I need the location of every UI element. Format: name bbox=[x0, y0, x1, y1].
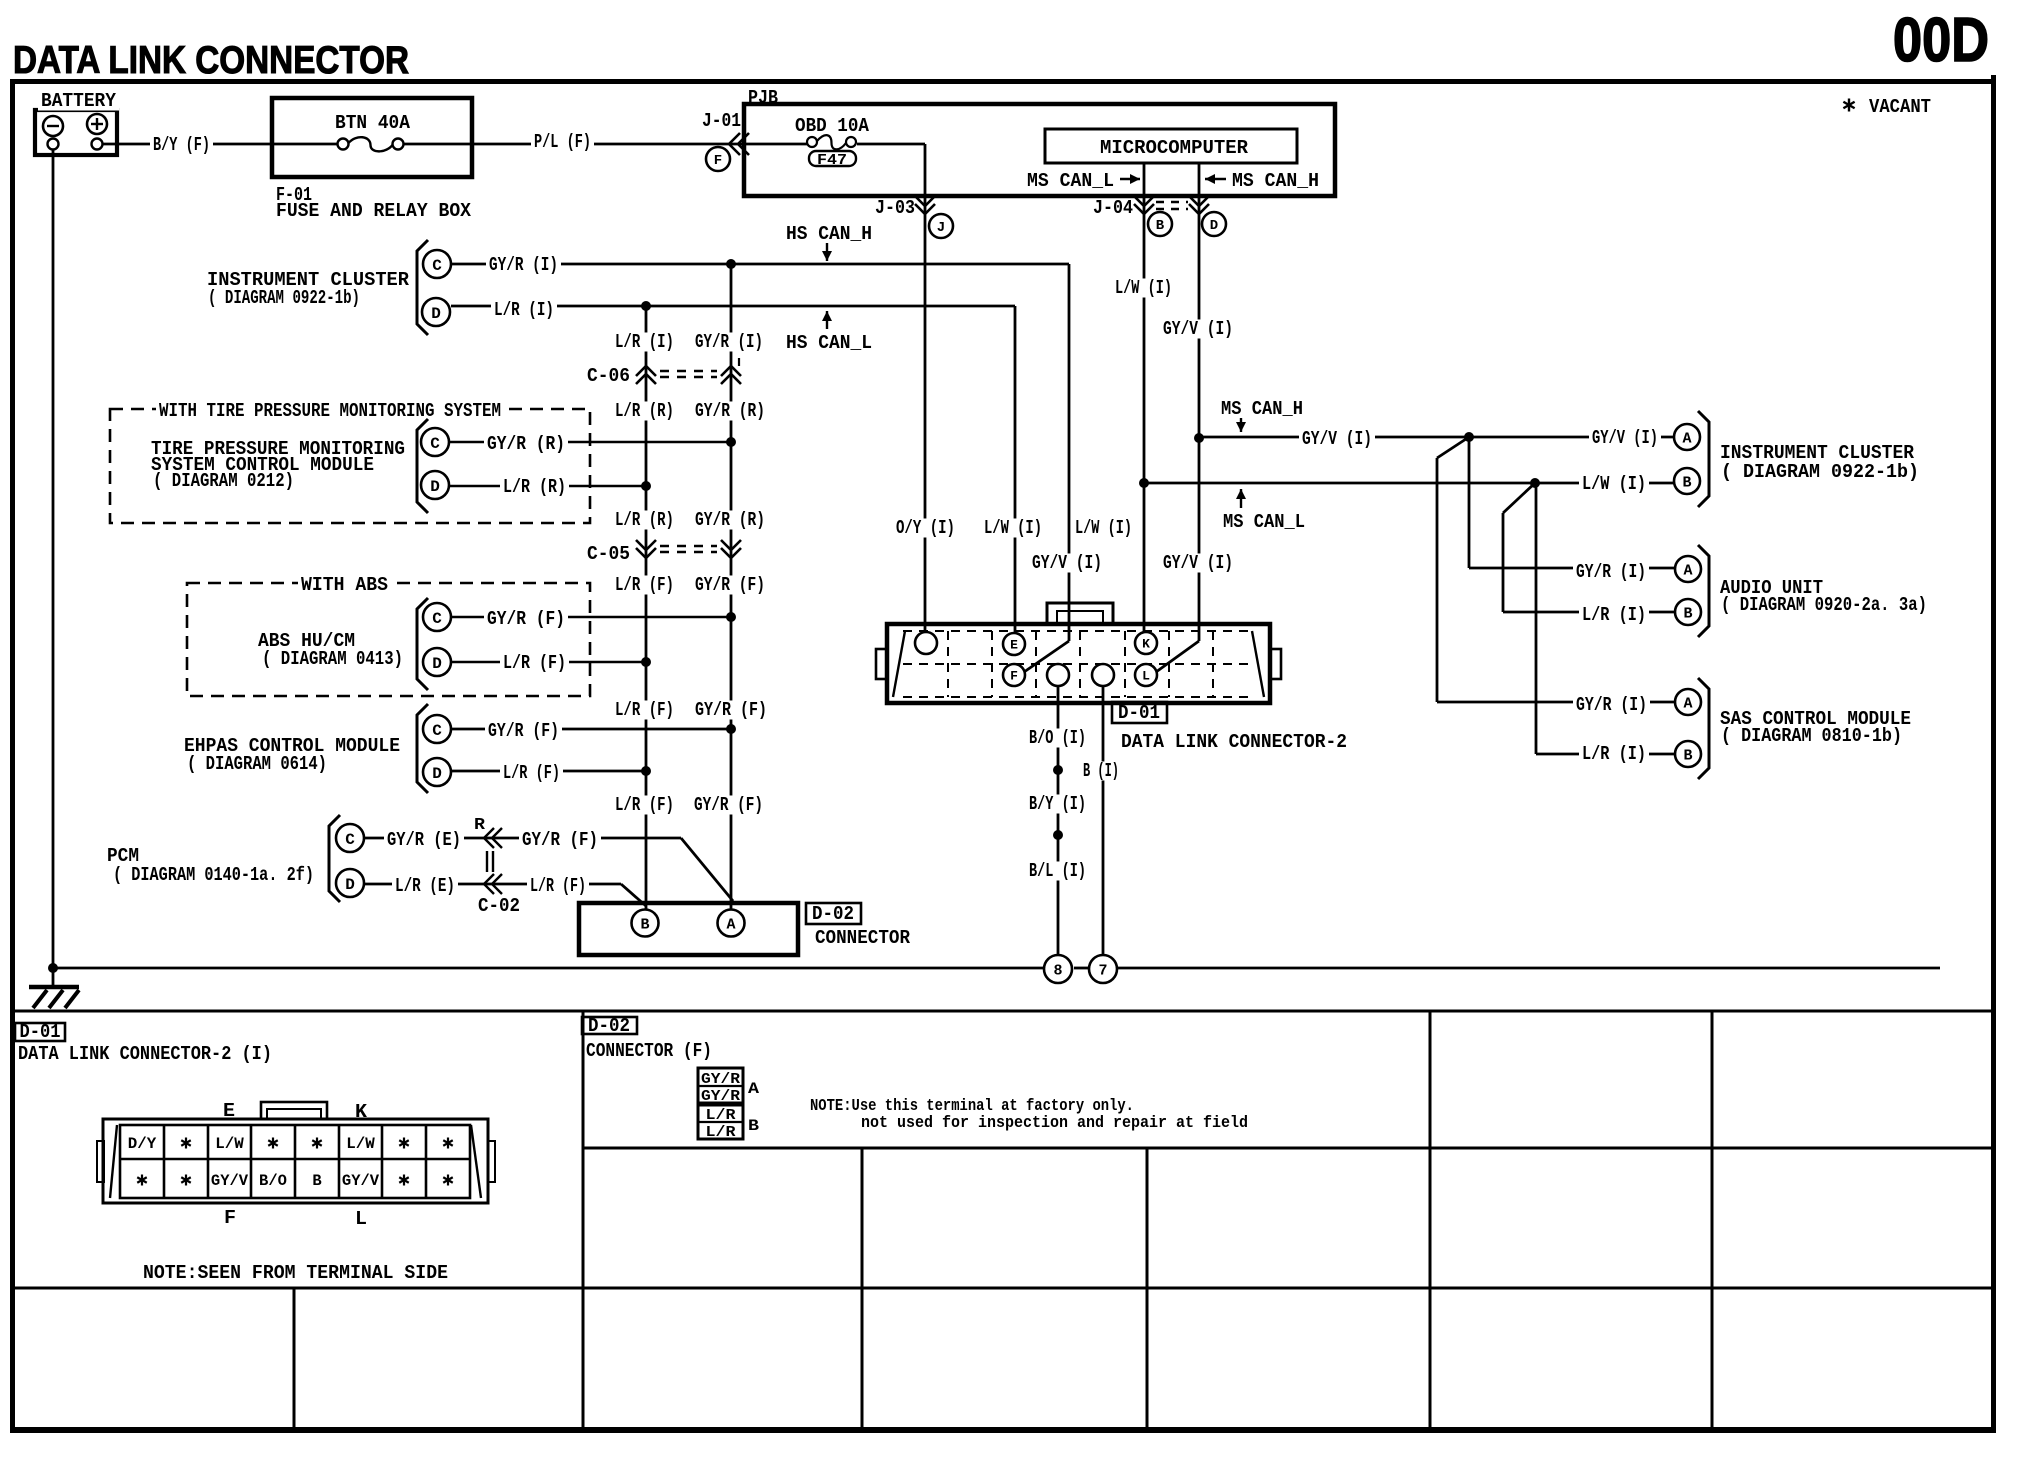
svg-text:B (I): B (I) bbox=[1083, 760, 1119, 782]
label B/Y (F) bbox=[150, 135, 213, 154]
svg-text:L/R (F): L/R (F) bbox=[615, 794, 674, 816]
svg-text:D: D bbox=[430, 478, 440, 496]
svg-text:O/Y (I): O/Y (I) bbox=[896, 517, 955, 539]
label L/W (I) upper bbox=[1112, 278, 1175, 297]
wire: EHPAS C GY/R (F) bbox=[452, 728, 731, 731]
PJB box bbox=[744, 104, 1335, 196]
svg-text:GY/V (I): GY/V (I) bbox=[1163, 318, 1233, 340]
svg-text:L/W (I): L/W (I) bbox=[1115, 277, 1172, 299]
svg-text:CONNECTOR (F): CONNECTOR (F) bbox=[586, 1040, 712, 1062]
svg-text:L/W: L/W bbox=[215, 1135, 244, 1153]
border frame bbox=[10, 79, 1996, 84]
svg-text:L/R (I): L/R (I) bbox=[494, 299, 554, 321]
pin D circle bbox=[1202, 212, 1226, 236]
fuse OBD 10A bbox=[792, 116, 872, 135]
vacant note bbox=[1848, 99, 1850, 112]
svg-text:OBD 10A: OBD 10A bbox=[795, 115, 870, 137]
D-02 wire color table A bbox=[698, 1068, 743, 1103]
svg-text:CONNECTOR: CONNECTOR bbox=[815, 927, 911, 949]
svg-text:DATA LINK CONNECTOR-2 (I): DATA LINK CONNECTOR-2 (I) bbox=[18, 1043, 272, 1065]
svg-text:P/L (F): P/L (F) bbox=[534, 131, 591, 153]
svg-text:F: F bbox=[224, 1207, 236, 1229]
svg-text:GY/V: GY/V bbox=[342, 1172, 380, 1190]
svg-text:C: C bbox=[432, 722, 442, 740]
label P/L (F) bbox=[531, 132, 594, 151]
svg-text:L/R: L/R bbox=[706, 1124, 736, 1141]
svg-text:( DIAGRAM 0922-1b): ( DIAGRAM 0922-1b) bbox=[1721, 461, 1919, 483]
D-01 tag bbox=[1112, 702, 1167, 723]
svg-text:GY/R (F): GY/R (F) bbox=[487, 608, 565, 630]
svg-text:DATA LINK CONNECTOR: DATA LINK CONNECTOR bbox=[13, 39, 409, 82]
labels L/R (R), GY/R (R) bbox=[612, 401, 677, 420]
wire: MS CAN_L L/W (I) to instrument cluster bbox=[1144, 482, 1675, 485]
svg-text:L/W (I): L/W (I) bbox=[1582, 473, 1646, 495]
label L/W (I) mid bbox=[981, 518, 1045, 537]
label L/R (F) bbox=[527, 876, 589, 895]
svg-text:( DIAGRAM 0212): ( DIAGRAM 0212) bbox=[153, 470, 294, 492]
svg-text:PJB: PJB bbox=[748, 87, 778, 109]
svg-text:GY/R (E): GY/R (E) bbox=[387, 829, 461, 851]
ground junction bbox=[48, 963, 58, 973]
svg-text:L/R: L/R bbox=[706, 1107, 736, 1124]
svg-text:( DIAGRAM 0810-1b): ( DIAGRAM 0810-1b) bbox=[1721, 725, 1902, 747]
label GY/R (F) bbox=[484, 609, 568, 628]
svg-text:D: D bbox=[1210, 218, 1218, 234]
svg-text:WITH TIRE PRESSURE MONITORING: WITH TIRE PRESSURE MONITORING SYSTEM bbox=[159, 400, 501, 422]
svg-text:GY/V (I): GY/V (I) bbox=[1032, 552, 1102, 574]
svg-text:K: K bbox=[1142, 637, 1150, 652]
labels B/O, B, B/Y, B/L bbox=[1026, 728, 1089, 747]
svg-text:L/R (F): L/R (F) bbox=[503, 762, 560, 784]
svg-text:B: B bbox=[1156, 218, 1165, 234]
svg-text:J-03: J-03 bbox=[875, 197, 915, 219]
svg-text:7: 7 bbox=[1098, 962, 1107, 979]
svg-text:GY/R (R): GY/R (R) bbox=[695, 509, 765, 531]
label L/R (I) bbox=[491, 300, 557, 319]
label L/R (F) bbox=[500, 653, 569, 672]
TPMS bracket and pins bbox=[417, 419, 428, 513]
svg-text:D: D bbox=[345, 876, 355, 894]
fuse and relay box F-01 bbox=[272, 98, 472, 177]
wire: MS CAN_H GY/V (I) to instrument cluster bbox=[1199, 436, 1675, 439]
svg-text:L: L bbox=[355, 1208, 367, 1230]
wire: branch to audio A bbox=[1468, 437, 1471, 568]
label L/W (I) col4 bbox=[1072, 518, 1135, 537]
label GY/V (I) right2 bbox=[1589, 428, 1661, 447]
wire: B/O - B/Y - B/L drop to ground circle 8 bbox=[1057, 686, 1060, 955]
pin J circle bbox=[929, 214, 953, 238]
svg-text:D: D bbox=[432, 655, 442, 673]
svg-text:A: A bbox=[1683, 562, 1692, 579]
wire: OBD down to J-03 / O/Y (I) down to DLC-2 pin bbox=[924, 144, 927, 632]
svg-text:L/R (R): L/R (R) bbox=[503, 476, 566, 498]
svg-text:L/R (F): L/R (F) bbox=[503, 652, 566, 674]
D-01 pinout cells row2 bbox=[141, 1175, 143, 1186]
svg-text:HS CAN_L: HS CAN_L bbox=[786, 332, 872, 354]
svg-text:L/R (I): L/R (I) bbox=[615, 331, 674, 353]
svg-text:L/W (I): L/W (I) bbox=[984, 517, 1042, 539]
label GY/R (F) bbox=[519, 830, 601, 849]
labels L/R (F), GY/R (F) above PCM bbox=[612, 795, 677, 814]
svg-text:BATTERY: BATTERY bbox=[41, 90, 117, 112]
labels L/R (R), GY/R (R) below TPMS bbox=[612, 510, 677, 529]
wire: fuse to PJB bbox=[404, 143, 744, 146]
label GY/R (R) bbox=[484, 434, 568, 453]
F47 label bbox=[809, 151, 856, 166]
svg-text:C: C bbox=[432, 610, 442, 628]
svg-text:L/R (R): L/R (R) bbox=[615, 509, 674, 531]
svg-text:C-05: C-05 bbox=[587, 543, 630, 565]
ground bus bbox=[53, 967, 1044, 970]
svg-text:8: 8 bbox=[1053, 962, 1062, 979]
fuse BTN 40A bbox=[338, 139, 349, 150]
wire: branch to SAS A bbox=[1437, 437, 1469, 458]
D-02 tag bbox=[806, 903, 861, 924]
SAS control module bbox=[1573, 695, 1650, 714]
svg-text:A: A bbox=[726, 916, 735, 933]
TPMS dashed box bbox=[110, 409, 590, 523]
instrument cluster (left) bbox=[417, 240, 428, 335]
svg-text:L/R (R): L/R (R) bbox=[615, 400, 674, 422]
connector C-06 bbox=[584, 366, 633, 385]
svg-text:B/L (I): B/L (I) bbox=[1029, 860, 1086, 882]
label L/R (F) bbox=[500, 763, 563, 782]
wire: L/R column bbox=[645, 306, 648, 909]
wire: microcomputer MS CAN_H drop bbox=[1198, 163, 1201, 641]
svg-text:B/O (I): B/O (I) bbox=[1029, 727, 1086, 749]
svg-text:( DIAGRAM 0920-2a. 3a): ( DIAGRAM 0920-2a. 3a) bbox=[1721, 594, 1927, 616]
svg-text:MICROCOMPUTER: MICROCOMPUTER bbox=[1100, 137, 1249, 159]
label GY/R (F) bbox=[485, 721, 562, 740]
label GY/R (I) bbox=[486, 255, 561, 274]
instrument cluster (right) bbox=[1674, 424, 1700, 450]
svg-text:D-02: D-02 bbox=[588, 1015, 630, 1037]
svg-text:NOTE:SEEN FROM TERMINAL SIDE: NOTE:SEEN FROM TERMINAL SIDE bbox=[143, 1262, 448, 1284]
wire: PCM D L/R row bbox=[364, 883, 621, 886]
svg-text:GY/R: GY/R bbox=[701, 1071, 740, 1088]
svg-text:D: D bbox=[432, 765, 442, 783]
svg-text:B: B bbox=[312, 1172, 322, 1190]
wire: GY/V diagonal to pin L bbox=[1156, 641, 1199, 672]
wire: ABS D L/R (F) bbox=[451, 661, 646, 663]
wire: GY/R column bbox=[730, 264, 733, 909]
svg-text:C-06: C-06 bbox=[587, 365, 630, 387]
label GY/V (I) right1 bbox=[1299, 429, 1375, 448]
svg-text:J: J bbox=[937, 220, 945, 236]
svg-text:F: F bbox=[1010, 669, 1018, 684]
svg-text:B: B bbox=[1683, 747, 1692, 764]
label L/R (E) bbox=[392, 876, 458, 895]
D-02 detail tag bbox=[582, 1017, 637, 1034]
svg-text:R: R bbox=[474, 816, 486, 835]
svg-text:GY/R (F): GY/R (F) bbox=[522, 829, 598, 851]
svg-text:BTN 40A: BTN 40A bbox=[335, 112, 411, 134]
svg-text:00D: 00D bbox=[1893, 6, 1989, 75]
svg-text:B: B bbox=[1683, 605, 1692, 622]
svg-text:WITH ABS: WITH ABS bbox=[301, 574, 388, 596]
wire: battery negative down to ground bus bbox=[52, 150, 55, 986]
svg-text:HS CAN_H: HS CAN_H bbox=[786, 223, 872, 245]
svg-text:B: B bbox=[1682, 474, 1691, 491]
label GY/V (I) col5 bbox=[1160, 553, 1236, 572]
svg-text:GY/R (I): GY/R (I) bbox=[1576, 561, 1646, 583]
wire: HS CAN_L L/R (I) line bbox=[451, 305, 1015, 308]
wire: branch to SAS B bbox=[1535, 483, 1538, 754]
svg-text:( DIAGRAM 0922-1b): ( DIAGRAM 0922-1b) bbox=[208, 287, 360, 309]
svg-text:not used for inspection and re: not used for inspection and repair at fi… bbox=[861, 1114, 1248, 1133]
labels L/R (F), GY/R (F) bbox=[612, 575, 677, 594]
wire: battery positive to fuse box bbox=[102, 143, 337, 146]
svg-text:GY/R (F): GY/R (F) bbox=[488, 720, 559, 742]
connector D-02 box bbox=[579, 903, 798, 955]
svg-text:E: E bbox=[1010, 638, 1018, 653]
table grid bbox=[582, 1011, 585, 1430]
pin B circle bbox=[1148, 212, 1172, 236]
svg-text:MS CAN_H: MS CAN_H bbox=[1221, 398, 1303, 420]
connector C-05 bbox=[584, 544, 633, 563]
svg-text:GY/R: GY/R bbox=[701, 1088, 740, 1105]
DLC-2 dashed grid bbox=[903, 630, 1254, 632]
svg-text:C: C bbox=[430, 435, 440, 453]
wire: branch to audio B bbox=[1503, 483, 1535, 513]
svg-text:L/W (I): L/W (I) bbox=[1075, 517, 1132, 539]
svg-text:L/R (F): L/R (F) bbox=[530, 875, 586, 897]
svg-text:MS CAN_H: MS CAN_H bbox=[1232, 170, 1319, 192]
svg-text:L/R (E): L/R (E) bbox=[395, 875, 455, 897]
svg-text:GY/R (R): GY/R (R) bbox=[487, 433, 565, 455]
label L/W (I) right bbox=[1579, 474, 1649, 493]
pin F circle bbox=[706, 147, 730, 171]
svg-text:F47: F47 bbox=[817, 152, 847, 169]
svg-text:B/Y (I): B/Y (I) bbox=[1029, 793, 1086, 815]
svg-text:D-01: D-01 bbox=[1118, 702, 1160, 724]
battery bbox=[35, 110, 117, 155]
ground circle 8 bbox=[1044, 955, 1072, 983]
svg-text:GY/R (F): GY/R (F) bbox=[694, 794, 763, 816]
svg-text:D-01: D-01 bbox=[20, 1021, 61, 1043]
svg-text:GY/V (I): GY/V (I) bbox=[1592, 427, 1658, 449]
svg-text:D-02: D-02 bbox=[812, 903, 854, 925]
svg-text:VACANT: VACANT bbox=[1869, 96, 1931, 118]
junction dots HS CAN lines bbox=[726, 259, 736, 269]
label GY/V (I) mid bbox=[1029, 553, 1105, 572]
svg-text:GY/R (I): GY/R (I) bbox=[489, 254, 558, 276]
svg-text:L/R (I): L/R (I) bbox=[1582, 604, 1646, 626]
D-01 pinout drawing bbox=[103, 1119, 488, 1203]
svg-text:( DIAGRAM 0140-1a. 2f): ( DIAGRAM 0140-1a. 2f) bbox=[113, 864, 314, 886]
svg-text:B/Y (F): B/Y (F) bbox=[153, 134, 210, 156]
ABS bracket and pins bbox=[417, 598, 428, 690]
svg-text:F: F bbox=[714, 153, 722, 169]
svg-text:D: D bbox=[431, 305, 441, 323]
svg-text:GY/V (I): GY/V (I) bbox=[1163, 552, 1233, 574]
svg-text:L/W: L/W bbox=[346, 1135, 375, 1153]
svg-text:C: C bbox=[432, 257, 442, 275]
svg-text:J-04: J-04 bbox=[1093, 197, 1133, 219]
wire: TPMS C GY/R (R) bbox=[449, 441, 731, 443]
wire: microcomputer MS CAN_L drop bbox=[1143, 163, 1146, 633]
wire: PJB internal OBD feed bbox=[744, 143, 807, 146]
ground symbol bbox=[29, 985, 79, 990]
svg-text:A: A bbox=[748, 1080, 759, 1098]
svg-text:A: A bbox=[1683, 695, 1692, 712]
D-01 detail tag bbox=[15, 1023, 65, 1041]
svg-text:GY/R (F): GY/R (F) bbox=[695, 699, 767, 721]
svg-text:GY/R (I): GY/R (I) bbox=[1576, 694, 1647, 716]
svg-text:C-02: C-02 bbox=[478, 895, 520, 917]
svg-text:J-01: J-01 bbox=[702, 110, 741, 132]
svg-text:MS CAN_L: MS CAN_L bbox=[1223, 511, 1305, 533]
svg-text:L/R (F): L/R (F) bbox=[615, 574, 674, 596]
ground circle 7 bbox=[1089, 955, 1117, 983]
svg-text:MS CAN_L: MS CAN_L bbox=[1027, 170, 1114, 192]
svg-text:GY/R (R): GY/R (R) bbox=[695, 400, 765, 422]
D-02 wire color table B bbox=[698, 1105, 743, 1139]
labels L/R (F), GY/R (F) below ABS bbox=[612, 700, 677, 719]
svg-text:L: L bbox=[1142, 669, 1150, 684]
wire: ABS C GY/R (F) bbox=[451, 616, 731, 618]
svg-text:( DIAGRAM 0413): ( DIAGRAM 0413) bbox=[262, 648, 403, 670]
svg-text:GY/V (I): GY/V (I) bbox=[1302, 428, 1372, 450]
svg-text:E: E bbox=[223, 1100, 235, 1122]
svg-text:K: K bbox=[355, 1101, 368, 1123]
column labels L/R (I), GY/R (I) bbox=[612, 332, 677, 351]
wire: B (I) drop to ground circle 7 bbox=[1102, 686, 1105, 955]
wire: L/W (I) drop to pin E bbox=[1014, 306, 1017, 633]
svg-text:C: C bbox=[345, 831, 355, 849]
svg-text:B: B bbox=[640, 916, 649, 933]
wire: HS CAN_H GY/R (I) line bbox=[452, 263, 1069, 266]
svg-text:GY/R (I): GY/R (I) bbox=[695, 331, 763, 353]
label GY/R (E) bbox=[384, 830, 464, 849]
svg-text:B/O: B/O bbox=[259, 1172, 287, 1190]
wire: PCM C GY/R row bbox=[364, 837, 681, 840]
svg-text:FUSE AND RELAY BOX: FUSE AND RELAY BOX bbox=[276, 200, 472, 222]
DLC-2 pins bbox=[915, 632, 937, 654]
audio unit bbox=[1573, 562, 1649, 581]
svg-text:GY/R (F): GY/R (F) bbox=[695, 574, 765, 596]
svg-text:B: B bbox=[748, 1117, 759, 1135]
svg-text:DATA LINK CONNECTOR-2: DATA LINK CONNECTOR-2 bbox=[1121, 731, 1347, 753]
svg-text:L/R (I): L/R (I) bbox=[1582, 743, 1646, 765]
svg-text:GY/V: GY/V bbox=[211, 1172, 249, 1190]
svg-text:( DIAGRAM 0614): ( DIAGRAM 0614) bbox=[187, 753, 327, 775]
svg-text:L/R (F): L/R (F) bbox=[615, 699, 674, 721]
microcomputer box bbox=[1045, 129, 1297, 163]
DLC-2 connector box bbox=[887, 624, 1270, 703]
label L/R (R) bbox=[500, 477, 569, 496]
wire: EHPAS D L/R (F) bbox=[452, 770, 646, 773]
label O/Y (I) bbox=[893, 518, 958, 537]
svg-text:D/Y: D/Y bbox=[128, 1135, 157, 1153]
wire: GY/V (I) drop to pin F bbox=[1068, 264, 1071, 641]
svg-text:A: A bbox=[1682, 430, 1691, 447]
label GY/V (I) upper bbox=[1160, 319, 1236, 338]
ABS dashed box bbox=[187, 583, 590, 696]
wire: TPMS D L/R (R) bbox=[449, 485, 646, 487]
